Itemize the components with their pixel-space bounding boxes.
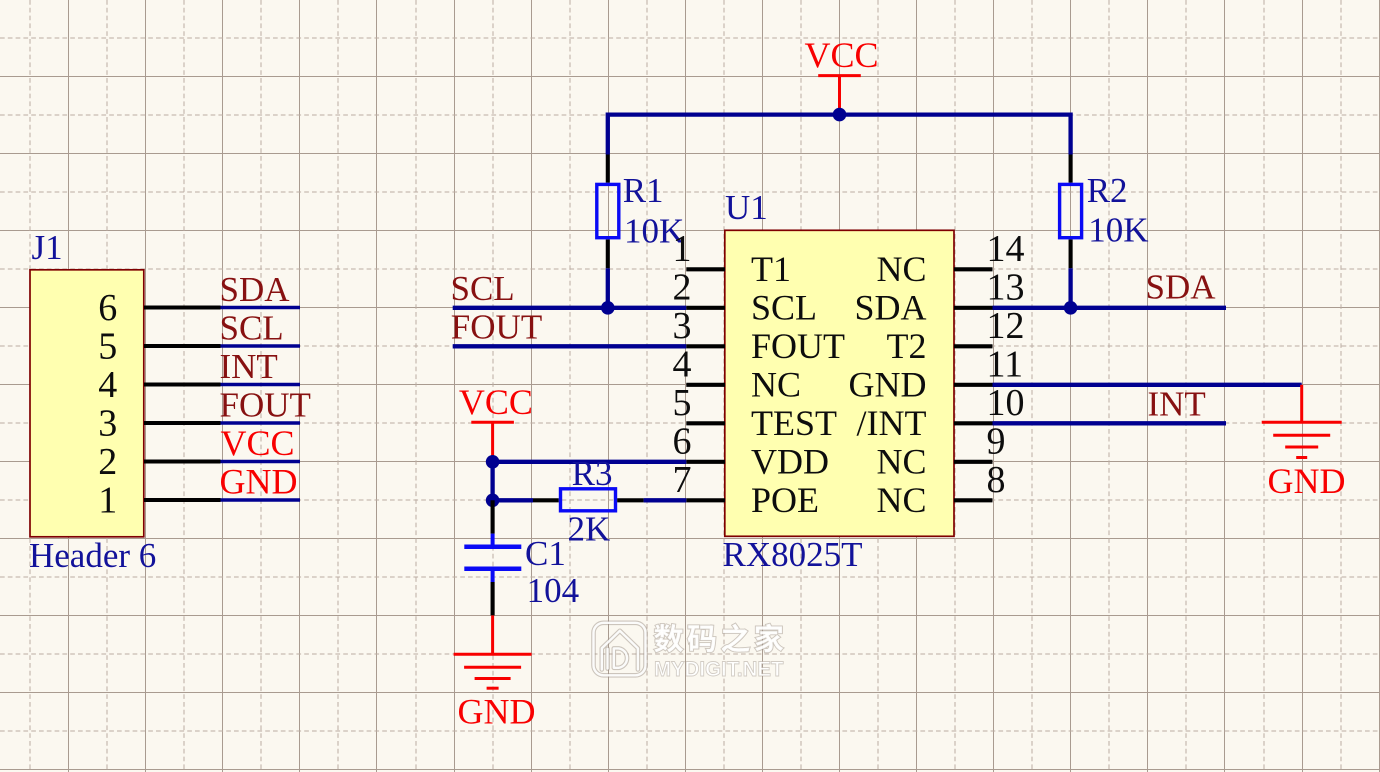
junction SCL/R1: [601, 301, 615, 315]
svg-text:POE: POE: [751, 480, 819, 520]
svg-text:SCL: SCL: [451, 269, 515, 308]
wire SCL to U1 pin2: [453, 306, 687, 310]
svg-text:NC: NC: [876, 442, 926, 482]
svg-text:VCC: VCC: [459, 382, 533, 422]
capacitor C1: [491, 500, 495, 533]
svg-text:11: 11: [987, 343, 1024, 385]
J1 pin 1: [144, 498, 221, 502]
svg-text:6: 6: [673, 420, 692, 462]
wire VCC (J1 pin2): [221, 460, 301, 463]
U1 pin 9 (NC): [954, 460, 993, 464]
U1 pin 4 (NC): [686, 383, 725, 387]
svg-text:FOUT: FOUT: [451, 308, 542, 347]
svg-text:NC: NC: [876, 249, 926, 289]
junction VCC/top rail: [833, 108, 847, 122]
wire SDA (J1 pin6): [221, 306, 301, 309]
ground GND (left): [491, 615, 494, 654]
svg-text:SDA: SDA: [220, 270, 291, 309]
wire VCC top rail: [608, 115, 1071, 155]
wire VCC vertical: [490, 462, 494, 501]
svg-text:4: 4: [673, 343, 692, 385]
wire INT (U1 pin10): [993, 421, 1227, 425]
svg-text:NC: NC: [751, 365, 801, 405]
wire R1 to SCL junction: [606, 268, 610, 308]
svg-text:U1: U1: [725, 188, 768, 227]
svg-text:GND: GND: [220, 462, 298, 502]
junction SDA/R2: [1064, 301, 1078, 315]
U1 pin 3 (FOUT): [686, 344, 725, 348]
U1 pin 7 (POE): [686, 498, 725, 502]
U1 pin 8 (NC): [954, 498, 993, 502]
svg-text:R2: R2: [1087, 171, 1128, 210]
svg-text:SDA: SDA: [1146, 268, 1217, 307]
svg-text:R3: R3: [572, 454, 613, 493]
connector J1 body: [30, 270, 144, 537]
resistor R1: [606, 155, 610, 183]
U1 pin 6 (VDD): [686, 460, 725, 464]
svg-text:R1: R1: [623, 171, 664, 210]
svg-text:GND: GND: [1268, 461, 1346, 501]
watermark logo: [594, 623, 646, 676]
IC U1 body: [725, 230, 954, 536]
U1 pin 5 (TEST): [686, 421, 725, 425]
svg-text:Header 6: Header 6: [29, 536, 156, 575]
svg-text:7: 7: [673, 459, 692, 501]
svg-text:FOUT: FOUT: [220, 386, 311, 425]
U1 pin 1 (T1): [686, 267, 725, 271]
svg-text:104: 104: [527, 571, 580, 610]
svg-text:1: 1: [673, 228, 692, 270]
wire GND (J1 pin1): [221, 498, 301, 501]
svg-text:J1: J1: [32, 228, 63, 267]
svg-text:1: 1: [98, 480, 117, 522]
junction C1/POE wire: [486, 494, 500, 508]
U1 pin 13 (SDA): [954, 306, 993, 310]
svg-text:3: 3: [673, 305, 692, 347]
svg-text:NC: NC: [876, 480, 926, 520]
svg-text:VCC: VCC: [805, 35, 879, 75]
svg-text:INT: INT: [220, 347, 278, 386]
J1 pin 3: [144, 421, 221, 425]
U1 pin 10 (/INT): [954, 421, 993, 425]
svg-text:SDA: SDA: [854, 288, 926, 328]
svg-text:4: 4: [98, 364, 117, 406]
J1 pin 4: [144, 382, 221, 386]
svg-text:3: 3: [98, 403, 117, 445]
svg-text:2: 2: [673, 266, 692, 308]
watermark CJK text 数码之家: [654, 624, 783, 653]
svg-text:FOUT: FOUT: [751, 326, 845, 366]
wire FOUT to U1 pin3: [453, 344, 687, 348]
svg-text:TEST: TEST: [751, 403, 837, 443]
J1 pin 2: [144, 459, 221, 463]
wire R3 to U1 pin7: [644, 498, 687, 502]
svg-text:14: 14: [987, 228, 1025, 270]
svg-text:13: 13: [987, 266, 1025, 308]
wire SCL (J1 pin5): [221, 344, 301, 347]
wire SDA (U1 pin13 to R2): [993, 306, 1227, 310]
U1 pin 11 (GND): [954, 383, 993, 387]
svg-text:5: 5: [673, 382, 692, 424]
wire INT (J1 pin4): [221, 383, 301, 386]
svg-text:2K: 2K: [568, 510, 611, 549]
svg-text:GND: GND: [458, 692, 536, 732]
wire R2 to SDA junction: [1068, 268, 1072, 308]
svg-text:GND: GND: [849, 365, 927, 405]
svg-text:12: 12: [987, 305, 1025, 347]
svg-text:SCL: SCL: [751, 288, 817, 328]
U1 pin 2 (SCL): [686, 306, 725, 310]
svg-text:/INT: /INT: [857, 403, 927, 443]
svg-text:10K: 10K: [1088, 211, 1148, 250]
svg-text:10: 10: [987, 382, 1025, 424]
J1 pin 6: [144, 305, 221, 309]
junction VCC/VDD wire: [486, 455, 500, 469]
U1 pin 14 (NC): [954, 267, 993, 271]
wire POE to R3: [493, 498, 533, 502]
svg-text:SCL: SCL: [220, 309, 284, 348]
svg-text:9: 9: [987, 420, 1006, 462]
wire FOUT (J1 pin3): [221, 421, 301, 424]
svg-text:RX8025T: RX8025T: [723, 535, 863, 574]
svg-text:5: 5: [98, 326, 117, 368]
svg-text:8: 8: [987, 459, 1006, 501]
resistor R3: [533, 498, 559, 502]
svg-text:T1: T1: [751, 249, 791, 289]
ground GND (right): [1300, 385, 1303, 423]
wire GND (U1 pin11): [993, 383, 1302, 387]
resistor R2: [1069, 155, 1073, 183]
svg-text:2: 2: [98, 441, 117, 483]
U1 pin 12 (T2): [954, 344, 993, 348]
svg-text:C1: C1: [525, 534, 566, 573]
wire VDD to U1 pin6: [493, 460, 687, 464]
svg-text:6: 6: [98, 287, 117, 329]
svg-text:T2: T2: [887, 326, 927, 366]
svg-text:VCC: VCC: [221, 423, 295, 463]
svg-text:MYDIGIT.NET: MYDIGIT.NET: [654, 658, 784, 681]
J1 pin 5: [144, 344, 221, 348]
svg-text:INT: INT: [1148, 384, 1206, 423]
svg-text:VDD: VDD: [751, 442, 829, 482]
